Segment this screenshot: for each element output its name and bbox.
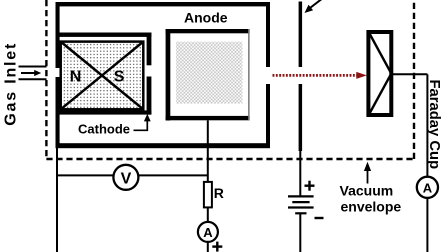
svg-text:A: A bbox=[203, 225, 213, 240]
svg-text:V: V bbox=[121, 170, 132, 187]
svg-text:A: A bbox=[423, 180, 433, 195]
svg-text:Vacuum: Vacuum bbox=[340, 183, 394, 199]
svg-text:envelope: envelope bbox=[341, 199, 402, 215]
svg-text:Cathode: Cathode bbox=[78, 122, 130, 137]
svg-text:Gas Inlet: Gas Inlet bbox=[3, 42, 20, 126]
svg-text:S: S bbox=[114, 69, 125, 86]
svg-text:N: N bbox=[70, 69, 82, 86]
svg-text:R: R bbox=[214, 185, 224, 201]
svg-text:Anode: Anode bbox=[184, 10, 228, 26]
svg-text:Faraday Cup: Faraday Cup bbox=[426, 80, 442, 170]
